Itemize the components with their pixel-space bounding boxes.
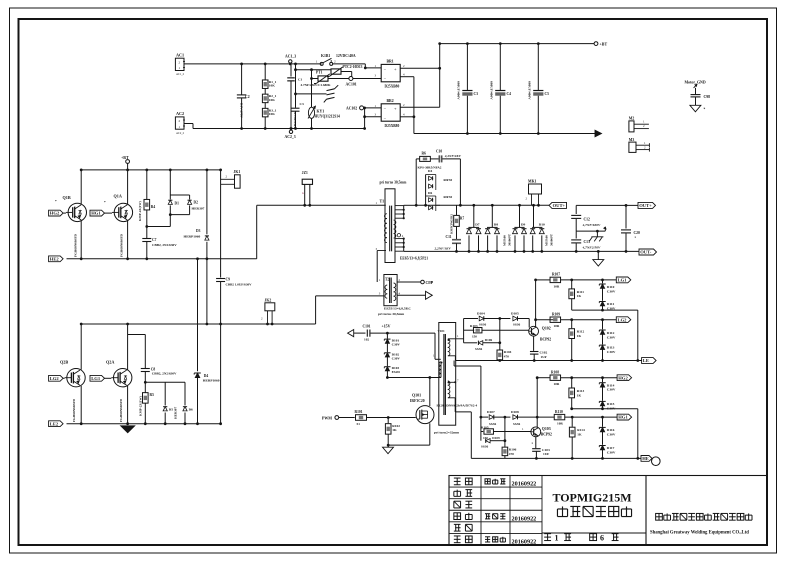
diode D7 xyxy=(467,204,482,253)
wire row1 xyxy=(534,279,550,282)
svg-text:EE55/13×6,8,5P,C: EE55/13×6,8,5P,C xyxy=(384,307,411,311)
connector M3 xyxy=(629,138,650,153)
svg-text:LG1: LG1 xyxy=(91,376,101,381)
svg-text:10R: 10R xyxy=(557,422,563,426)
tab LG1 out xyxy=(616,277,631,283)
resistor R112 xyxy=(569,320,585,362)
capacitor C102 xyxy=(530,336,548,362)
svg-text:K1B1: K1B1 xyxy=(321,54,330,58)
svg-text:ES2D: ES2D xyxy=(392,370,401,374)
title block grid xyxy=(449,476,767,546)
tab OUT+ right xyxy=(638,202,656,208)
svg-text:SS36: SS36 xyxy=(513,422,520,426)
capacitor C1b xyxy=(292,63,304,130)
svg-text:+BT: +BT xyxy=(121,155,129,160)
wire T101 sec2 pins xyxy=(448,381,471,458)
svg-text:C13: C13 xyxy=(584,240,591,244)
svg-text:20160922: 20160922 xyxy=(512,516,537,523)
svg-text:OUT+: OUT+ xyxy=(639,203,652,208)
wire row3 xyxy=(536,376,550,379)
tab HG2 xyxy=(49,210,66,216)
svg-text:AC2_3: AC2_3 xyxy=(285,135,296,139)
svg-text:20160922: 20160922 xyxy=(512,481,537,488)
diode D2 xyxy=(188,195,205,215)
svg-text:*: * xyxy=(704,108,706,112)
svg-text:D106: D106 xyxy=(485,338,493,342)
resistor R113 xyxy=(569,378,585,409)
tab HG2 out xyxy=(617,375,632,381)
svg-text:D113: D113 xyxy=(607,346,615,350)
svg-text:D107: D107 xyxy=(487,410,495,414)
date designed xyxy=(512,481,537,488)
thermistor PT1 xyxy=(310,71,349,84)
wire lower emitter bus xyxy=(67,423,221,425)
svg-text:EE65/13×6,8,5P21: EE65/13×6,8,5P21 xyxy=(400,256,428,260)
transformer T2 xyxy=(378,275,411,316)
svg-text:KMP(3W)5R2: KMP(3W)5R2 xyxy=(450,214,454,234)
svg-text:D6: D6 xyxy=(428,191,432,195)
svg-text:D10: D10 xyxy=(539,222,545,226)
capacitor C10 xyxy=(430,150,461,163)
tab HE2 xyxy=(49,256,64,262)
svg-text:BCP92: BCP92 xyxy=(540,337,551,341)
svg-text:Shanghai Greatway Welding Equi: Shanghai Greatway Welding Equipment CO.,… xyxy=(650,531,749,536)
tab HG1 out xyxy=(617,414,632,420)
svg-text:C4: C4 xyxy=(507,92,512,96)
transistor Q2A xyxy=(106,323,132,426)
diode pair D6a xyxy=(424,190,452,211)
svg-text:T2: T2 xyxy=(385,278,389,282)
resistor R7 xyxy=(450,205,465,239)
svg-text:OUT+: OUT+ xyxy=(553,203,566,208)
svg-text:JZ1: JZ1 xyxy=(302,171,308,175)
svg-text:D117: D117 xyxy=(607,446,615,450)
capacitor C2 xyxy=(237,63,250,130)
capacitor C1a xyxy=(287,64,302,130)
wire K1B1 to BR1 xyxy=(333,64,382,69)
name approver xyxy=(485,537,505,542)
wire output box bottom xyxy=(0,0,1,1)
svg-text:SS36: SS36 xyxy=(489,422,496,426)
capacitor C12 xyxy=(571,205,601,231)
svg-text:60F30: 60F30 xyxy=(444,195,453,199)
diode D105 xyxy=(511,312,529,328)
svg-text:4,7NF2/50V: 4,7NF2/50V xyxy=(582,246,601,250)
svg-text:AC2: AC2 xyxy=(176,111,184,116)
transistor Q1A xyxy=(104,170,133,260)
svg-text:Q1A: Q1A xyxy=(114,194,122,199)
svg-text:R108: R108 xyxy=(551,370,559,374)
svg-text:R113: R113 xyxy=(577,389,585,393)
tab HG1 xyxy=(90,210,112,216)
svg-text:SS36: SS36 xyxy=(513,323,520,327)
diode D6 xyxy=(174,382,194,425)
svg-text:PT1: PT1 xyxy=(316,71,323,75)
wire diode top bus xyxy=(416,204,549,206)
svg-text:680UF/400V: 680UF/400V xyxy=(489,81,493,100)
label MUR right xyxy=(545,233,554,246)
svg-text:HG1: HG1 xyxy=(618,415,628,420)
node AC1_3 xyxy=(285,54,296,65)
svg-text:60F30: 60F30 xyxy=(444,178,453,182)
svg-text:2,2NF/2KV: 2,2NF/2KV xyxy=(444,154,462,158)
svg-text:1K: 1K xyxy=(577,433,582,437)
svg-text:R4: R4 xyxy=(151,205,156,209)
transistor Q102 xyxy=(529,280,552,341)
zener D103 xyxy=(384,357,400,379)
svg-text:R111: R111 xyxy=(577,290,584,294)
svg-text:C30V: C30V xyxy=(607,450,616,454)
diode D9 xyxy=(513,204,527,253)
wire mid row xyxy=(576,227,606,233)
svg-text:470: 470 xyxy=(504,354,509,358)
date reviewed xyxy=(512,516,537,523)
capacitor C13 xyxy=(571,231,601,253)
svg-text:1UF: 1UF xyxy=(543,452,549,456)
wire lower bus xyxy=(81,323,315,326)
svg-text:C30V: C30V xyxy=(392,343,401,347)
svg-text:R5: R5 xyxy=(150,393,155,397)
svg-text:D109: D109 xyxy=(492,436,500,440)
wire sec feed jog xyxy=(454,361,482,419)
transformer T101 xyxy=(433,323,478,435)
svg-text:R101: R101 xyxy=(355,410,363,414)
svg-text:D4: D4 xyxy=(428,169,432,173)
svg-text:D108: D108 xyxy=(511,410,519,414)
tab LG2 xyxy=(49,375,65,381)
chassis ground out xyxy=(589,231,603,241)
resistor R111 xyxy=(569,280,584,310)
resistor R106 xyxy=(502,417,517,458)
transistor Q101 xyxy=(388,376,434,445)
net arrow T2 out xyxy=(397,291,432,299)
net Motor_GND xyxy=(685,80,706,88)
svg-text:R106: R106 xyxy=(509,447,517,451)
diode D3 xyxy=(184,169,210,325)
svg-text:30100PT: 30100PT xyxy=(550,233,554,246)
company name en xyxy=(650,531,749,536)
resistor R1_1 xyxy=(262,63,276,89)
tab LG1 xyxy=(90,375,111,381)
wire BR1 out+ xyxy=(400,42,441,107)
svg-text:KMP-2Z(1W): KMP-2Z(1W) xyxy=(138,201,142,221)
svg-text:AC1_3: AC1_3 xyxy=(285,54,296,58)
svg-text:CBB2, 2N2/630V: CBB2, 2N2/630V xyxy=(152,243,177,247)
title main circuit diagram xyxy=(557,506,631,516)
svg-text:Motor_GND: Motor_GND xyxy=(685,80,706,84)
wire lower bus to T2 xyxy=(316,296,384,324)
ground output xyxy=(593,250,604,266)
svg-text:AC1: AC1 xyxy=(176,53,184,58)
svg-text:IRF3C20: IRF3C20 xyxy=(410,399,425,403)
resistor R5 xyxy=(139,382,155,425)
svg-text:JK1: JK1 xyxy=(234,170,241,174)
ground Q101 xyxy=(383,444,394,454)
svg-text:BR2: BR2 xyxy=(387,99,394,103)
svg-text:51: 51 xyxy=(357,422,361,426)
svg-text:HE: HE xyxy=(642,456,649,461)
zener D116 xyxy=(599,417,616,445)
zener D111 xyxy=(599,302,616,312)
svg-text:R110: R110 xyxy=(555,410,563,414)
svg-text:C9: C9 xyxy=(226,278,231,282)
net arrow DC- xyxy=(595,130,602,137)
wire drain row xyxy=(387,377,441,379)
svg-text:1K: 1K xyxy=(577,294,582,298)
svg-text:R1V-275V: R1V-275V xyxy=(240,103,244,119)
svg-text:D112: D112 xyxy=(607,331,615,335)
capacitor C3 xyxy=(457,42,479,135)
svg-text:R102: R102 xyxy=(392,424,400,428)
tab LG2 out xyxy=(616,317,631,323)
diode D4 lower leg xyxy=(194,259,220,425)
svg-text:Q1B: Q1B xyxy=(63,195,71,200)
svg-text:R107: R107 xyxy=(552,273,560,277)
title TOPMIG215M xyxy=(552,490,631,504)
svg-text:R104: R104 xyxy=(504,350,512,354)
svg-text:AC102: AC102 xyxy=(346,106,357,110)
svg-text:D25XB80: D25XB80 xyxy=(385,85,400,89)
svg-text:HER307: HER307 xyxy=(174,407,178,419)
zener D115 xyxy=(599,401,616,410)
svg-text:M3: M3 xyxy=(629,138,635,142)
svg-text:JK2: JK2 xyxy=(265,298,272,302)
svg-text:D105: D105 xyxy=(511,312,519,316)
label filter values xyxy=(301,83,331,87)
svg-text:1K: 1K xyxy=(577,334,582,338)
svg-text:LG2: LG2 xyxy=(618,317,628,322)
wire AC102 drop xyxy=(363,108,381,130)
company name cn xyxy=(656,513,752,520)
svg-text:D1: D1 xyxy=(175,202,180,206)
capacitor C8 xyxy=(128,335,177,384)
tab OUT- right xyxy=(639,249,657,255)
svg-text:T1: T1 xyxy=(380,199,385,204)
svg-text:20160922: 20160922 xyxy=(512,539,537,546)
svg-text:150: 150 xyxy=(472,335,477,339)
svg-text:C7: C7 xyxy=(152,238,157,242)
svg-text:102: 102 xyxy=(364,338,369,342)
svg-text:D115: D115 xyxy=(607,402,615,406)
svg-text:1K: 1K xyxy=(577,393,582,397)
svg-text:D111: D111 xyxy=(607,302,615,306)
svg-text:*: * xyxy=(55,199,57,203)
svg-text:1K: 1K xyxy=(392,428,397,432)
svg-text:Q101: Q101 xyxy=(412,392,421,397)
svg-text:OUT-: OUT- xyxy=(640,250,652,255)
svg-text:D4: D4 xyxy=(204,374,209,378)
svg-text:SS36: SS36 xyxy=(481,445,488,449)
svg-text:C3: C3 xyxy=(474,92,479,96)
wire output box top xyxy=(576,204,638,207)
net PWM xyxy=(322,416,355,421)
svg-text:6: 6 xyxy=(600,534,604,543)
svg-text:C20: C20 xyxy=(634,231,641,235)
capacitor C5 xyxy=(527,42,549,135)
svg-text:SS36: SS36 xyxy=(475,347,482,351)
svg-text:680UF/400V: 680UF/400V xyxy=(457,81,461,100)
svg-text:M2: M2 xyxy=(629,117,635,121)
svg-text:C3: C3 xyxy=(300,102,304,106)
transistor Q103 xyxy=(531,378,552,437)
bridge rectifier BR2 xyxy=(375,99,406,128)
svg-text:1: 1 xyxy=(555,534,559,543)
label MUR mid xyxy=(503,233,512,246)
svg-text:*: * xyxy=(104,200,106,204)
svg-text:C5: C5 xyxy=(545,92,550,96)
tab LE out xyxy=(642,358,657,364)
wire T101 sec1 bottom xyxy=(448,356,455,361)
wire bottom rail xyxy=(291,128,365,130)
sensor JZ1 xyxy=(302,171,313,207)
svg-text:KMP-2Z(1W): KMP-2Z(1W) xyxy=(139,396,143,416)
transistor Q2B xyxy=(60,323,85,426)
wire T1 pri bottom xyxy=(377,251,386,283)
svg-text:D114: D114 xyxy=(607,383,615,387)
diode D1 xyxy=(147,169,190,227)
resistor R108 xyxy=(550,370,617,386)
resistor R103 xyxy=(464,324,529,339)
wire snubber row xyxy=(145,381,185,383)
diode pair D4a xyxy=(426,169,453,190)
connector JK1 xyxy=(221,170,241,188)
wire T1 sec bottom taps xyxy=(395,238,639,252)
wire upper bus xyxy=(81,169,221,171)
capacitor C103 xyxy=(532,437,551,460)
svg-text:10K: 10K xyxy=(269,112,275,116)
svg-text:pri turns 30,5mm: pri turns 30,5mm xyxy=(378,312,404,316)
svg-text:HE2: HE2 xyxy=(50,256,60,261)
wire AC1 to filter xyxy=(184,63,322,65)
svg-text:PTC2-10D13: PTC2-10D13 xyxy=(343,65,363,69)
svg-text:C1: C1 xyxy=(298,78,302,82)
svg-text:1UF: 1UF xyxy=(541,355,547,359)
connector M2 xyxy=(629,117,649,132)
svg-text:D110: D110 xyxy=(607,285,615,289)
svg-text:680UF/400V: 680UF/400V xyxy=(527,81,531,100)
svg-text:C30V: C30V xyxy=(607,432,616,436)
zener D117 xyxy=(599,446,616,460)
svg-text:PWM: PWM xyxy=(322,416,332,420)
svg-text:TOPMIG215M: TOPMIG215M xyxy=(552,490,631,504)
svg-text:4,7NF/630V: 4,7NF/630V xyxy=(582,223,601,227)
transistor Q1B xyxy=(55,169,87,261)
chassis ground top xyxy=(294,85,338,102)
zener D101 xyxy=(384,333,400,347)
tab HE out xyxy=(641,456,660,466)
svg-text:Q103: Q103 xyxy=(542,427,551,431)
svg-text:D3: D3 xyxy=(196,229,201,233)
svg-text:+BT: +BT xyxy=(600,41,608,46)
diode D8 xyxy=(485,204,499,253)
svg-text:C30V: C30V xyxy=(607,289,616,293)
capacitor C9 xyxy=(216,278,252,426)
svg-text:CBB2 1.0UF/630V: CBB2 1.0UF/630V xyxy=(226,283,253,287)
svg-text:R103: R103 xyxy=(470,324,478,328)
svg-text:D9: D9 xyxy=(521,222,526,226)
svg-text:AC1_2: AC1_2 xyxy=(176,73,185,76)
terminal +BT igbt xyxy=(121,155,130,171)
svg-text:HG2: HG2 xyxy=(618,375,628,380)
svg-text:AC2_2: AC2_2 xyxy=(176,132,185,135)
svg-text:FGH60N60SFD: FGH60N60SFD xyxy=(72,398,76,422)
svg-text:D116: D116 xyxy=(607,428,615,432)
ground C98 xyxy=(690,105,706,112)
capacitor C98 xyxy=(691,88,711,105)
svg-text:LG1: LG1 xyxy=(618,278,628,283)
terminal +BT xyxy=(594,41,607,46)
zener D113 xyxy=(599,345,616,362)
wire C10 drop xyxy=(459,159,462,207)
svg-text:Q2A: Q2A xyxy=(106,360,114,365)
svg-text:D8: D8 xyxy=(494,222,499,226)
svg-text:470: 470 xyxy=(509,452,514,456)
svg-text:R112: R112 xyxy=(577,330,585,334)
resistor R102 xyxy=(385,418,400,446)
name reviewer xyxy=(485,514,505,519)
svg-text:MUR60: MUR60 xyxy=(545,235,549,246)
svg-text:10R: 10R xyxy=(554,324,560,328)
bridge rectifier BR1 xyxy=(375,59,406,88)
resistor R4 xyxy=(138,169,155,228)
svg-text:C30V: C30V xyxy=(607,350,616,354)
svg-text:E128-3DN9A-2b/9A/5F7S2-4: E128-3DN9A-2b/9A/5F7S2-4 xyxy=(437,404,478,408)
zener D112 xyxy=(599,320,616,345)
svg-text:D25XB80: D25XB80 xyxy=(385,124,400,128)
net +15V arrow xyxy=(348,330,366,337)
svg-text:10K: 10K xyxy=(269,84,275,88)
wire BR1 out- xyxy=(400,77,595,134)
svg-text:4.7NF/250V: 4.7NF/250V xyxy=(293,112,297,129)
svg-text:Q102: Q102 xyxy=(542,326,551,330)
svg-text:KY1: KY1 xyxy=(317,110,325,114)
title block row labels xyxy=(454,478,472,543)
svg-text:D7: D7 xyxy=(475,222,480,226)
svg-text:Q2B: Q2B xyxy=(60,360,68,365)
svg-text:FGH60N60SFD: FGH60N60SFD xyxy=(120,233,124,257)
svg-text:2,2NF/1KV: 2,2NF/1KV xyxy=(434,247,452,251)
wire T1 sec top taps xyxy=(395,205,416,219)
resistor R2_1 xyxy=(262,88,276,102)
svg-text:HG2: HG2 xyxy=(50,211,60,216)
svg-text:C12: C12 xyxy=(584,218,591,222)
wire row1 return xyxy=(572,310,639,362)
wire T101 sec1 top xyxy=(448,319,478,343)
wire phase out xyxy=(257,205,386,258)
svg-text:C10: C10 xyxy=(436,150,442,154)
svg-text:SS36: SS36 xyxy=(479,323,486,327)
tab LE2 xyxy=(49,421,64,427)
connector MK1 xyxy=(526,179,542,206)
svg-text:LE2: LE2 xyxy=(50,421,59,426)
wire row2 xyxy=(536,319,554,321)
svg-text:R109: R109 xyxy=(552,312,560,316)
name designer xyxy=(485,479,505,484)
zener D102 xyxy=(384,343,400,360)
capacitor C101 xyxy=(363,325,436,342)
wire AC2 to bottom rail xyxy=(184,124,291,129)
diode D107 xyxy=(481,410,511,426)
relay coil KY1 xyxy=(308,70,340,130)
diode D109 xyxy=(481,436,506,449)
svg-text:pri turn2=32mm: pri turn2=32mm xyxy=(434,431,459,435)
svg-text:C11: C11 xyxy=(446,235,452,239)
wire row B xyxy=(294,68,331,71)
capacitor C20 xyxy=(621,205,640,252)
svg-text:D104: D104 xyxy=(477,312,485,316)
resistor R114 xyxy=(569,417,585,460)
sheet number row xyxy=(544,534,618,543)
